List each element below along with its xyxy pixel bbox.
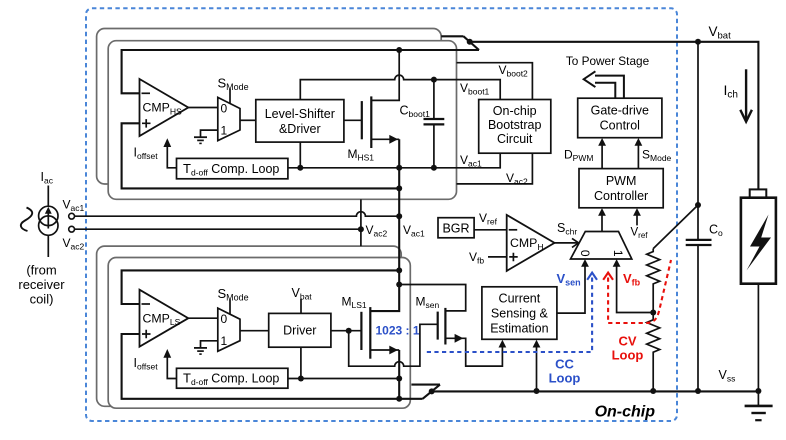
wire Td-off/Vac1 sense line to bootstrap circuit <box>288 153 500 168</box>
svg-text:Loop: Loop <box>549 371 581 386</box>
node M_HS1 drain to Vbat rail <box>396 47 402 53</box>
wire S_Mode to gate-drive <box>637 140 639 168</box>
wire Vss bottom line <box>432 390 759 392</box>
wire Co branch lower <box>697 245 699 391</box>
wire HS back-copy Vbat rail stub <box>441 35 463 37</box>
wire S_chr output to charge mux <box>555 242 578 244</box>
ground (HS mux) <box>194 137 207 143</box>
current source I_ac symbol <box>39 206 58 235</box>
CV loop arrowhead <box>603 273 613 280</box>
wire mux input 1 to ground <box>201 130 218 137</box>
svg-text:1: 1 <box>611 250 625 257</box>
mux S_Mode LS <box>218 308 240 351</box>
node Co bottom on Vss <box>695 388 701 394</box>
svg-text:Sensing &: Sensing & <box>491 307 549 321</box>
wire Vac2 from stacked copy to bootstrap circuit <box>457 153 533 184</box>
svg-text:Vfb: Vfb <box>469 250 484 266</box>
node level-shifter bottom stub junction <box>297 165 303 171</box>
svg-text:Loop: Loop <box>612 348 644 363</box>
node Vac1 rail / Vac1 terminal line <box>396 213 402 219</box>
arrowhead current sense input left <box>499 340 507 348</box>
node Td-off LS line junction on rail <box>396 376 402 382</box>
terminal Vac2 <box>69 226 75 232</box>
wire Vac1 rail (M_HS1 source down to M_LS1 drain) <box>370 139 399 311</box>
arrowhead D_PWM <box>598 138 606 146</box>
svg-text:0: 0 <box>578 250 592 257</box>
block BGR <box>438 218 474 238</box>
wire Vac1 line (hops Vac2 vertical) <box>75 212 400 217</box>
node Vac1 rail / LS block top rail <box>396 267 402 273</box>
svg-text:Circuit: Circuit <box>497 132 533 146</box>
wire driver supply stub <box>300 299 302 313</box>
wire LS stack merge diagonal <box>423 385 440 399</box>
wire Vac2 stack vertical <box>360 199 362 246</box>
svg-text:Vac1: Vac1 <box>403 223 425 239</box>
node Vbat tap on merge diagonal <box>467 39 473 45</box>
CC loop arrowhead <box>587 273 597 280</box>
transistor M_LS1 <box>361 307 399 359</box>
label (from receiver coil) <box>18 263 65 307</box>
LS driver block back copy outline <box>97 246 402 406</box>
wire battery bottom <box>757 284 759 391</box>
resistor R2 (divider bottom) <box>647 313 660 392</box>
svg-text:Schr: Schr <box>557 221 577 237</box>
svg-text:Current: Current <box>499 292 541 306</box>
block Current Sensing & Estimation <box>482 287 557 340</box>
node divider midpoint Vfb <box>650 310 656 316</box>
wire Vboot1 from level-shifter supply to bootstrap circuit (hops Vac1 rail) <box>300 75 500 100</box>
svg-text:Estimation: Estimation <box>490 322 548 336</box>
node Vac2 line to stack vertical <box>358 226 364 232</box>
svg-text:PWM: PWM <box>606 174 637 188</box>
block On-chip Bootstrap Circuit <box>479 100 551 154</box>
svg-text:Level-Shifter: Level-Shifter <box>265 107 335 121</box>
node C_boot1 top / Vboot1 line <box>431 77 437 83</box>
svg-text:Vboot2: Vboot2 <box>499 63 529 79</box>
current source I_ac bottom lead <box>47 235 49 257</box>
arrowhead mux output <box>598 208 606 216</box>
wire M_LS1 source to Vss rail <box>398 350 400 399</box>
node battery bottom on Vss <box>755 388 761 394</box>
arrowhead Vss sense <box>533 340 541 348</box>
svg-text:Vac1: Vac1 <box>63 198 85 214</box>
svg-text:0: 0 <box>221 312 228 326</box>
svg-text:Vac2: Vac2 <box>506 171 528 187</box>
op-amp CMP_HS <box>140 79 189 136</box>
block Td-off Comp. Loop (LS) <box>177 368 288 388</box>
wire D_PWM to gate-drive <box>601 140 603 168</box>
hollow arrow to power stage <box>584 71 624 98</box>
wire Vsen output to mux input 0 <box>557 262 585 314</box>
svg-text:Driver: Driver <box>283 324 316 338</box>
wire BGR Vref to CMP_H minus <box>474 229 507 231</box>
svg-text:CV: CV <box>618 334 636 349</box>
wire mux output to driver (LS) <box>240 330 269 332</box>
wire Vac2 line <box>75 228 361 230</box>
wire driver output to M_HS1 gate <box>344 119 362 121</box>
node C_boot1 bottom / Vac1 line <box>431 165 437 171</box>
wire CMP_LS output to mux <box>188 317 218 319</box>
wire Vbat top line <box>470 42 759 190</box>
wire LS back-copy Vss rail stub <box>411 384 440 386</box>
arrowhead Vref stub <box>633 208 641 216</box>
current source I_ac top lead <box>47 186 49 207</box>
terminal Vac1 <box>69 213 75 219</box>
svg-text:0: 0 <box>221 101 228 115</box>
svg-text:Vsen: Vsen <box>557 271 581 288</box>
wire Co branch upper <box>697 42 699 240</box>
arrowhead I_offset HS <box>163 138 171 147</box>
wire CMP_HS output to mux <box>188 107 218 109</box>
wire driver bottom stub <box>300 347 302 378</box>
svg-text:Gate-drive: Gate-drive <box>591 104 649 118</box>
block Driver <box>269 313 331 347</box>
arrowhead S_Mode <box>635 138 643 146</box>
capacitor C_o <box>686 240 712 245</box>
arrowhead S_chr <box>572 238 579 247</box>
svg-text:Controller: Controller <box>594 189 648 203</box>
block Level-Shifter & Driver <box>256 100 344 143</box>
block Gate-drive Control <box>578 98 662 138</box>
resistor R1 (divider top) <box>647 249 660 313</box>
svg-text:CC: CC <box>555 357 574 372</box>
wire V_ref stub into PWM controller <box>636 211 638 226</box>
svg-text:Co: Co <box>709 223 723 239</box>
svg-text:Ich: Ich <box>724 82 738 101</box>
arrowhead Vsen into mux <box>581 259 589 267</box>
node divider bottom on Vss <box>650 388 656 394</box>
svg-text:Msen: Msen <box>416 295 440 311</box>
op-amp CMP_H <box>507 215 555 271</box>
svg-text:Vboot1: Vboot1 <box>460 81 490 97</box>
svg-text:Vac1: Vac1 <box>460 153 482 169</box>
wire gate tie M_LS1 to M_sen (hops Vac1 rail) <box>349 324 438 366</box>
svg-text:Vss: Vss <box>719 368 736 384</box>
node gate tie junction <box>346 328 352 334</box>
svg-text:Iac: Iac <box>41 170 54 186</box>
arrowhead I_offset LS <box>163 349 171 358</box>
svg-text:Vac2: Vac2 <box>63 236 85 252</box>
wire mux output to level-shifter <box>240 119 256 121</box>
block Td-off Comp. Loop (HS) <box>177 158 288 178</box>
wire Vboot2 from stacked copy to bootstrap circuit <box>457 63 533 100</box>
wire HS stack merge diagonal <box>464 36 480 50</box>
node driver stub / Td-off line <box>298 376 304 382</box>
ground (LS mux) <box>194 348 207 354</box>
svg-text:1: 1 <box>221 124 228 138</box>
transistor M_HS1 <box>362 50 399 148</box>
svg-text:Vbat: Vbat <box>709 24 732 42</box>
svg-text:Control: Control <box>600 119 640 133</box>
CC loop dashed path <box>427 278 592 353</box>
label CV Loop <box>612 334 644 363</box>
wire CMP_HS minus loop to Vbat top rail <box>122 50 479 93</box>
node Vss tap on merge diagonal <box>429 388 435 394</box>
mux charge-mode selector <box>571 232 632 260</box>
svg-text:(from: (from <box>26 263 56 278</box>
svg-text:Vfb: Vfb <box>623 271 641 288</box>
arrow I_ch <box>740 69 752 121</box>
node Vac1 rail / Td-off line <box>396 165 402 171</box>
wire Vfb to CMP_H plus <box>488 256 507 258</box>
battery <box>741 189 776 283</box>
wire level-shifter bottom stub <box>299 142 301 168</box>
node Vss rail / bottom rail junction <box>396 396 402 402</box>
node divider switch tap <box>695 202 701 208</box>
svg-text:On-chip: On-chip <box>595 404 656 421</box>
wire I_offset injection (HS) <box>167 141 176 168</box>
svg-text:Vac2: Vac2 <box>366 223 388 239</box>
svg-text:BGR: BGR <box>442 221 469 235</box>
node Vss sense tap <box>534 388 540 394</box>
mux S_Mode HS <box>218 97 240 140</box>
HS driver block back copy outline <box>97 29 442 185</box>
wire mux output to PWM controller <box>601 211 603 232</box>
svg-text:1023 : 1: 1023 : 1 <box>376 323 420 337</box>
HS driver block front copy outline <box>108 41 456 200</box>
svg-text:receiver: receiver <box>18 277 65 292</box>
wire CMP_HS plus loop to Vac1 bottom rail <box>122 123 400 188</box>
capacitor C_boot1 <box>424 80 445 168</box>
LS driver block front copy outline <box>108 258 410 409</box>
wire mux input 1 to ground (LS) <box>201 341 218 348</box>
wire driver output to M_LS1 gate <box>331 330 362 332</box>
transistor M_sen <box>399 285 502 367</box>
label CC Loop <box>549 357 581 386</box>
svg-text:&Driver: &Driver <box>279 122 321 136</box>
ac squiggle <box>21 208 32 232</box>
wire Td-off LS to Vac1 rail <box>288 378 399 380</box>
arrowhead Vfb into mux <box>613 259 621 267</box>
wire CMP_LS minus loop to Vac1 top rail <box>122 270 400 304</box>
wire divider switch diagonal <box>653 205 698 249</box>
node Vac1 rail / M_sen drain tap <box>396 282 402 288</box>
wire S_Mode select stub <box>229 89 231 104</box>
wire CMP_LS plus loop to Vss bottom rail <box>122 334 423 399</box>
svg-text:coil): coil) <box>30 292 54 307</box>
svg-text:DPWM: DPWM <box>564 148 593 164</box>
svg-text:1: 1 <box>221 334 228 348</box>
wire I_offset injection (LS) <box>167 351 176 378</box>
wire Vfb tap to mux input 1 <box>617 262 654 313</box>
on-chip dashed boundary <box>86 8 677 421</box>
ground (Vss) <box>745 391 773 420</box>
svg-text:On-chip: On-chip <box>493 104 537 118</box>
CV loop dashed path <box>608 260 671 323</box>
svg-text:Bootstrap: Bootstrap <box>488 118 542 132</box>
op-amp CMP_LS <box>140 290 189 347</box>
node bottom rail / Vac1 rail junction <box>396 185 402 191</box>
svg-text:To Power Stage: To Power Stage <box>566 54 650 68</box>
svg-text:SMode: SMode <box>642 148 672 164</box>
wire Vss sense into current box <box>536 342 538 391</box>
svg-text:Vref: Vref <box>479 211 498 227</box>
wire S_Mode select stub (LS) <box>229 300 231 315</box>
svg-text:Vref: Vref <box>631 227 649 241</box>
block PWM Controller <box>579 169 663 208</box>
node Vbat / Co branch <box>695 39 701 45</box>
